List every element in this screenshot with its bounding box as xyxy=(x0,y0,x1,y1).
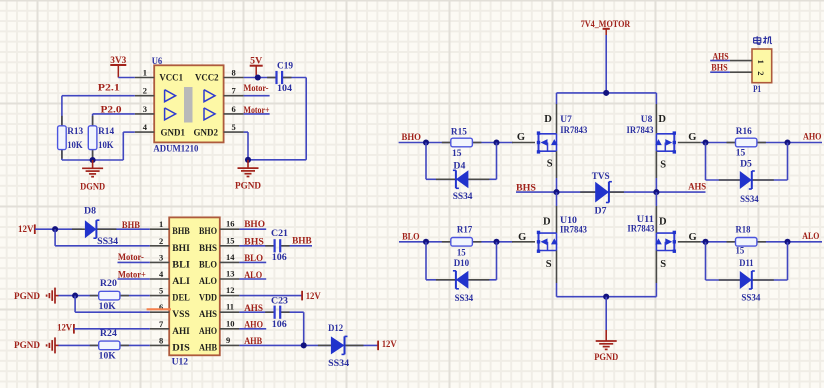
TVS diode D7 xyxy=(580,191,595,193)
power port 3V3 xyxy=(110,64,126,66)
svg-text:S: S xyxy=(547,158,553,169)
svg-text:15: 15 xyxy=(736,149,746,159)
wire BHS-AHS middle xyxy=(516,191,706,193)
svg-text:6: 6 xyxy=(232,104,236,114)
svg-text:ALO: ALO xyxy=(199,276,217,286)
svg-text:R14: R14 xyxy=(98,127,114,137)
capacitor C21 xyxy=(265,245,274,247)
svg-text:12V: 12V xyxy=(57,324,72,334)
svg-text:BHI: BHI xyxy=(172,243,190,253)
wire Motor+ pin4 xyxy=(118,278,150,280)
junction AHB xyxy=(301,342,307,348)
diode D8 xyxy=(72,228,85,230)
svg-text:D: D xyxy=(543,216,551,227)
wire drain U11 xyxy=(655,192,657,206)
svg-text:S: S xyxy=(660,259,666,270)
wire pin7 Motor- xyxy=(244,95,270,97)
wire P2.0 down to R14 xyxy=(92,114,94,126)
IC U6 body xyxy=(154,65,223,142)
svg-text:SS34: SS34 xyxy=(741,293,760,303)
junction R15 right xyxy=(493,139,499,145)
svg-text:AHS: AHS xyxy=(244,304,263,314)
svg-text:AHS: AHS xyxy=(199,309,217,319)
junction R16 right xyxy=(784,139,790,145)
wire R13/R14 bottoms to pin4 xyxy=(61,150,63,160)
svg-text:ADUM1210: ADUM1210 xyxy=(153,145,198,155)
svg-text:SS34: SS34 xyxy=(453,192,473,202)
IC U12 body xyxy=(169,217,220,355)
net label BHO (pin16) xyxy=(239,228,266,230)
wire source U11 xyxy=(655,251,657,284)
wire PGND stem xyxy=(605,297,607,330)
wire R15 to gate U7 xyxy=(472,142,513,144)
svg-text:PGND: PGND xyxy=(14,292,40,302)
svg-text:4: 4 xyxy=(143,122,148,132)
svg-text:D: D xyxy=(544,114,552,125)
wire gate U11 to R18 xyxy=(701,241,736,243)
svg-text:BLI: BLI xyxy=(172,259,190,269)
svg-text:VSS: VSS xyxy=(172,309,190,319)
wire 12V to D8 xyxy=(35,228,82,230)
svg-text:3: 3 xyxy=(143,104,147,114)
junction 5V xyxy=(255,74,261,80)
svg-text:G: G xyxy=(688,132,696,143)
junction R18 right xyxy=(784,239,790,245)
P1 pin 1 xyxy=(730,60,752,62)
wire source U10 xyxy=(556,251,558,284)
svg-text:BLO: BLO xyxy=(199,259,217,269)
svg-text:10K: 10K xyxy=(67,141,83,151)
svg-text:BHB: BHB xyxy=(172,226,190,236)
svg-text:AHB: AHB xyxy=(199,342,217,352)
svg-text:SS34: SS34 xyxy=(740,195,759,205)
wire drain U7 xyxy=(556,93,558,104)
wire drain U10 xyxy=(556,192,558,206)
svg-text:S: S xyxy=(660,160,666,171)
svg-text:IR7843: IR7843 xyxy=(560,126,587,136)
svg-text:D4: D4 xyxy=(453,162,465,172)
junction 12V row1 xyxy=(52,226,58,232)
svg-text:AHO: AHO xyxy=(244,321,263,331)
resistor R15 xyxy=(442,142,451,144)
wire gate U8 to R16 xyxy=(701,142,736,144)
pin6 highlight marker xyxy=(147,308,171,310)
svg-text:PGND: PGND xyxy=(235,181,261,191)
wire pin8 to C19 xyxy=(244,77,277,79)
ground PGND (bridge) xyxy=(605,330,607,341)
svg-text:BHO: BHO xyxy=(199,226,217,236)
svg-text:D10: D10 xyxy=(454,259,470,269)
U6 isolation barrier xyxy=(184,87,193,123)
svg-text:5: 5 xyxy=(159,286,163,296)
resistor R14 xyxy=(92,116,94,126)
transistor U8 xyxy=(673,133,675,152)
svg-text:R18: R18 xyxy=(736,226,751,236)
svg-text:R20: R20 xyxy=(100,279,117,289)
svg-text:5V: 5V xyxy=(250,57,262,67)
svg-text:R15: R15 xyxy=(451,127,467,137)
wire source U8 xyxy=(655,151,657,178)
U12 pins right xyxy=(220,228,240,230)
P1 pin 2 xyxy=(730,71,752,73)
svg-text:IR7843: IR7843 xyxy=(627,225,654,235)
U6 pins right xyxy=(224,77,244,79)
wire pin5 down xyxy=(244,131,248,133)
diode D4 branch xyxy=(425,143,427,180)
svg-text:104: 104 xyxy=(277,84,292,94)
wire R17 to gate U10 xyxy=(472,241,513,243)
junction PGND U6 xyxy=(245,157,251,163)
svg-text:AHO: AHO xyxy=(803,133,822,143)
svg-text:GND1: GND1 xyxy=(161,127,186,137)
svg-text:SS34: SS34 xyxy=(97,237,118,247)
svg-text:AHB: AHB xyxy=(244,337,263,347)
svg-text:106: 106 xyxy=(272,253,287,263)
svg-text:10K: 10K xyxy=(99,352,117,362)
svg-text:VCC2: VCC2 xyxy=(195,72,219,82)
wire P2.0 to pin3 xyxy=(93,113,135,115)
diode D10 branch xyxy=(425,242,427,280)
svg-text:3V3: 3V3 xyxy=(110,56,126,66)
diode D11 branch xyxy=(705,242,707,280)
wire junction down to pin6 VSS xyxy=(74,296,76,313)
wire PGND to R20 xyxy=(59,295,99,297)
ground PGND (U6) xyxy=(247,160,249,168)
svg-text:AHS: AHS xyxy=(688,183,706,193)
U6 pins left xyxy=(135,77,154,79)
svg-text:BHB: BHB xyxy=(122,221,141,231)
net label AHS (P1) xyxy=(710,60,730,62)
junction R18 left xyxy=(702,239,708,245)
svg-text:12V: 12V xyxy=(18,225,34,235)
svg-text:D: D xyxy=(658,114,666,125)
wire PGND to R24 xyxy=(59,344,99,346)
svg-text:S: S xyxy=(546,259,552,270)
junction row5 xyxy=(72,293,78,299)
resistor R16 xyxy=(727,142,736,144)
wire Motor- pin3 xyxy=(118,261,150,263)
svg-text:10: 10 xyxy=(226,318,235,328)
wire bottom rail xyxy=(557,296,657,298)
svg-text:15: 15 xyxy=(457,248,466,258)
svg-text:14: 14 xyxy=(226,252,235,262)
wire VDD pin12 to 12V xyxy=(239,295,302,297)
svg-text:SS34: SS34 xyxy=(455,294,474,304)
svg-text:6: 6 xyxy=(159,302,163,312)
svg-text:7: 7 xyxy=(232,86,237,96)
junction R17 right xyxy=(493,239,499,245)
wire BHO to R15 xyxy=(399,142,451,144)
wire source U7 xyxy=(556,151,558,178)
net label BHS (P1) xyxy=(710,71,730,73)
svg-text:2: 2 xyxy=(159,236,163,246)
svg-text:BHO: BHO xyxy=(244,220,265,230)
svg-text:8: 8 xyxy=(159,335,163,345)
svg-text:AHI: AHI xyxy=(172,326,190,336)
svg-text:R13: R13 xyxy=(67,127,83,137)
junction R16 left xyxy=(702,139,708,145)
svg-text:BHS: BHS xyxy=(711,63,727,73)
net label AHS (pin11) xyxy=(239,311,274,313)
junction BHS xyxy=(553,189,559,195)
junction top rail xyxy=(603,90,609,96)
diode D12 xyxy=(318,344,331,346)
svg-text:U11: U11 xyxy=(637,215,654,225)
wire D12 to 12V xyxy=(345,344,379,346)
svg-text:AHO: AHO xyxy=(199,326,217,336)
svg-text:1: 1 xyxy=(159,219,163,229)
wire P2.1 down to R13 xyxy=(61,96,63,126)
capacitor C23 xyxy=(265,311,274,313)
resistor R20 xyxy=(90,295,99,297)
power port 12V (D12) xyxy=(377,341,379,351)
transistor U7 xyxy=(538,133,540,152)
wire P2.1 to pin2 xyxy=(62,95,135,97)
label motor (Chinese) xyxy=(754,36,772,44)
wire top rail xyxy=(557,92,657,94)
junction bottom rail xyxy=(603,294,609,300)
wire 3V3 to pin1 xyxy=(118,77,135,79)
svg-text:P1: P1 xyxy=(753,85,761,95)
svg-text:PGND: PGND xyxy=(14,341,40,351)
net label BLO (pin14) xyxy=(239,261,266,263)
power port 12V (VDD) xyxy=(301,291,303,301)
wire down to pin2 BHI xyxy=(54,229,56,246)
svg-text:GND2: GND2 xyxy=(194,127,219,137)
svg-text:AHS: AHS xyxy=(713,52,729,62)
svg-text:Motor-: Motor- xyxy=(244,84,269,94)
wire 7V4 stem xyxy=(605,35,607,93)
svg-text:4: 4 xyxy=(159,269,164,279)
svg-text:DEL: DEL xyxy=(172,293,190,303)
svg-text:ALI: ALI xyxy=(172,276,190,286)
wire BLO to R17 xyxy=(399,241,452,243)
junction R15 left xyxy=(423,139,429,145)
svg-text:IR7843: IR7843 xyxy=(627,126,654,136)
svg-text:1: 1 xyxy=(756,60,766,64)
svg-text:C21: C21 xyxy=(271,229,288,239)
net label AHB (pin9) xyxy=(239,344,331,346)
svg-text:15: 15 xyxy=(226,235,235,245)
svg-text:BHS: BHS xyxy=(199,243,217,253)
svg-text:D12: D12 xyxy=(328,324,343,334)
svg-text:DIS: DIS xyxy=(172,342,190,352)
svg-text:12: 12 xyxy=(226,285,235,295)
wire R20 to pin5 xyxy=(120,295,150,297)
wire drain U8 xyxy=(655,93,657,104)
svg-text:5: 5 xyxy=(232,122,236,132)
diode D5 branch xyxy=(705,143,707,181)
svg-text:7: 7 xyxy=(159,319,164,329)
connector P1 body xyxy=(752,49,772,83)
svg-text:BHS: BHS xyxy=(516,183,536,193)
wire R24 to pin8 DIS xyxy=(120,344,150,346)
svg-text:P2.1: P2.1 xyxy=(98,84,120,94)
svg-text:U6: U6 xyxy=(152,57,163,67)
svg-text:15: 15 xyxy=(452,149,462,159)
ground DGND xyxy=(92,160,94,168)
svg-text:PGND: PGND xyxy=(594,353,618,363)
svg-text:DGND: DGND xyxy=(80,182,105,192)
svg-text:G: G xyxy=(517,132,525,143)
resistor R13 xyxy=(61,116,63,126)
svg-text:VDD: VDD xyxy=(199,293,217,303)
resistor R24 xyxy=(90,344,99,346)
power port 5V xyxy=(250,65,263,67)
svg-text:BLO: BLO xyxy=(244,254,263,264)
svg-text:2: 2 xyxy=(756,71,766,75)
capacitor C19 xyxy=(267,77,276,79)
svg-text:11: 11 xyxy=(226,302,234,312)
svg-text:R17: R17 xyxy=(457,226,473,236)
svg-text:SS34: SS34 xyxy=(328,359,349,369)
svg-text:1: 1 xyxy=(143,68,147,78)
net label BHS (pin15) xyxy=(239,245,274,247)
wire R16 to AHO xyxy=(757,142,822,144)
svg-text:10K: 10K xyxy=(98,141,114,151)
svg-text:BHS: BHS xyxy=(244,238,264,248)
svg-text:C23: C23 xyxy=(271,297,288,307)
svg-text:13: 13 xyxy=(226,269,235,279)
svg-text:R24: R24 xyxy=(100,329,117,339)
net label BHB (right of C21) xyxy=(280,245,312,247)
wire pin6 Motor+ xyxy=(244,113,270,115)
svg-text:106: 106 xyxy=(272,320,287,330)
wire D8 to pin1 xyxy=(96,228,149,230)
resistor R17 xyxy=(442,241,451,243)
transistor U10 xyxy=(538,232,540,251)
svg-text:D7: D7 xyxy=(595,206,607,216)
svg-text:ALO: ALO xyxy=(802,232,819,242)
wire C19 down to PGND rail xyxy=(282,77,306,79)
wire R18 to ALO xyxy=(757,241,822,243)
svg-text:C19: C19 xyxy=(277,61,293,71)
svg-text:D: D xyxy=(659,216,667,227)
svg-text:ALO: ALO xyxy=(244,271,262,281)
U12 pins left xyxy=(150,228,169,230)
svg-text:R16: R16 xyxy=(736,127,752,137)
svg-text:12V: 12V xyxy=(382,340,397,350)
svg-text:D5: D5 xyxy=(740,160,752,170)
svg-text:3: 3 xyxy=(159,252,163,262)
svg-text:2: 2 xyxy=(143,86,147,96)
svg-text:U12: U12 xyxy=(172,357,189,367)
svg-text:TVS: TVS xyxy=(592,172,610,182)
svg-text:10K: 10K xyxy=(99,302,117,312)
resistor R18 xyxy=(727,241,736,243)
svg-text:U8: U8 xyxy=(641,115,653,125)
svg-text:U10: U10 xyxy=(560,216,577,226)
wire C23 down to AHB xyxy=(280,311,304,313)
svg-text:D11: D11 xyxy=(739,259,754,269)
junction AHS xyxy=(653,189,659,195)
net label ALO (pin13) xyxy=(239,278,266,280)
svg-text:9: 9 xyxy=(226,335,230,345)
transistor U11 xyxy=(673,232,675,251)
svg-text:15: 15 xyxy=(736,246,745,256)
svg-text:U7: U7 xyxy=(560,115,572,125)
net label AHO (pin10) xyxy=(239,328,266,330)
svg-text:16: 16 xyxy=(226,219,235,229)
svg-text:VCC1: VCC1 xyxy=(159,72,183,82)
wire 12V to pin7 AHI xyxy=(74,328,150,330)
junction R17 left xyxy=(423,239,429,245)
junction DGND xyxy=(90,157,96,163)
U6 buffer triangles xyxy=(165,90,176,102)
svg-text:Motor-: Motor- xyxy=(118,253,144,263)
svg-text:D8: D8 xyxy=(84,207,96,217)
svg-text:IR7843: IR7843 xyxy=(560,226,587,236)
svg-text:8: 8 xyxy=(232,68,236,78)
svg-text:12V: 12V xyxy=(306,292,321,302)
svg-text:BHB: BHB xyxy=(292,237,312,247)
